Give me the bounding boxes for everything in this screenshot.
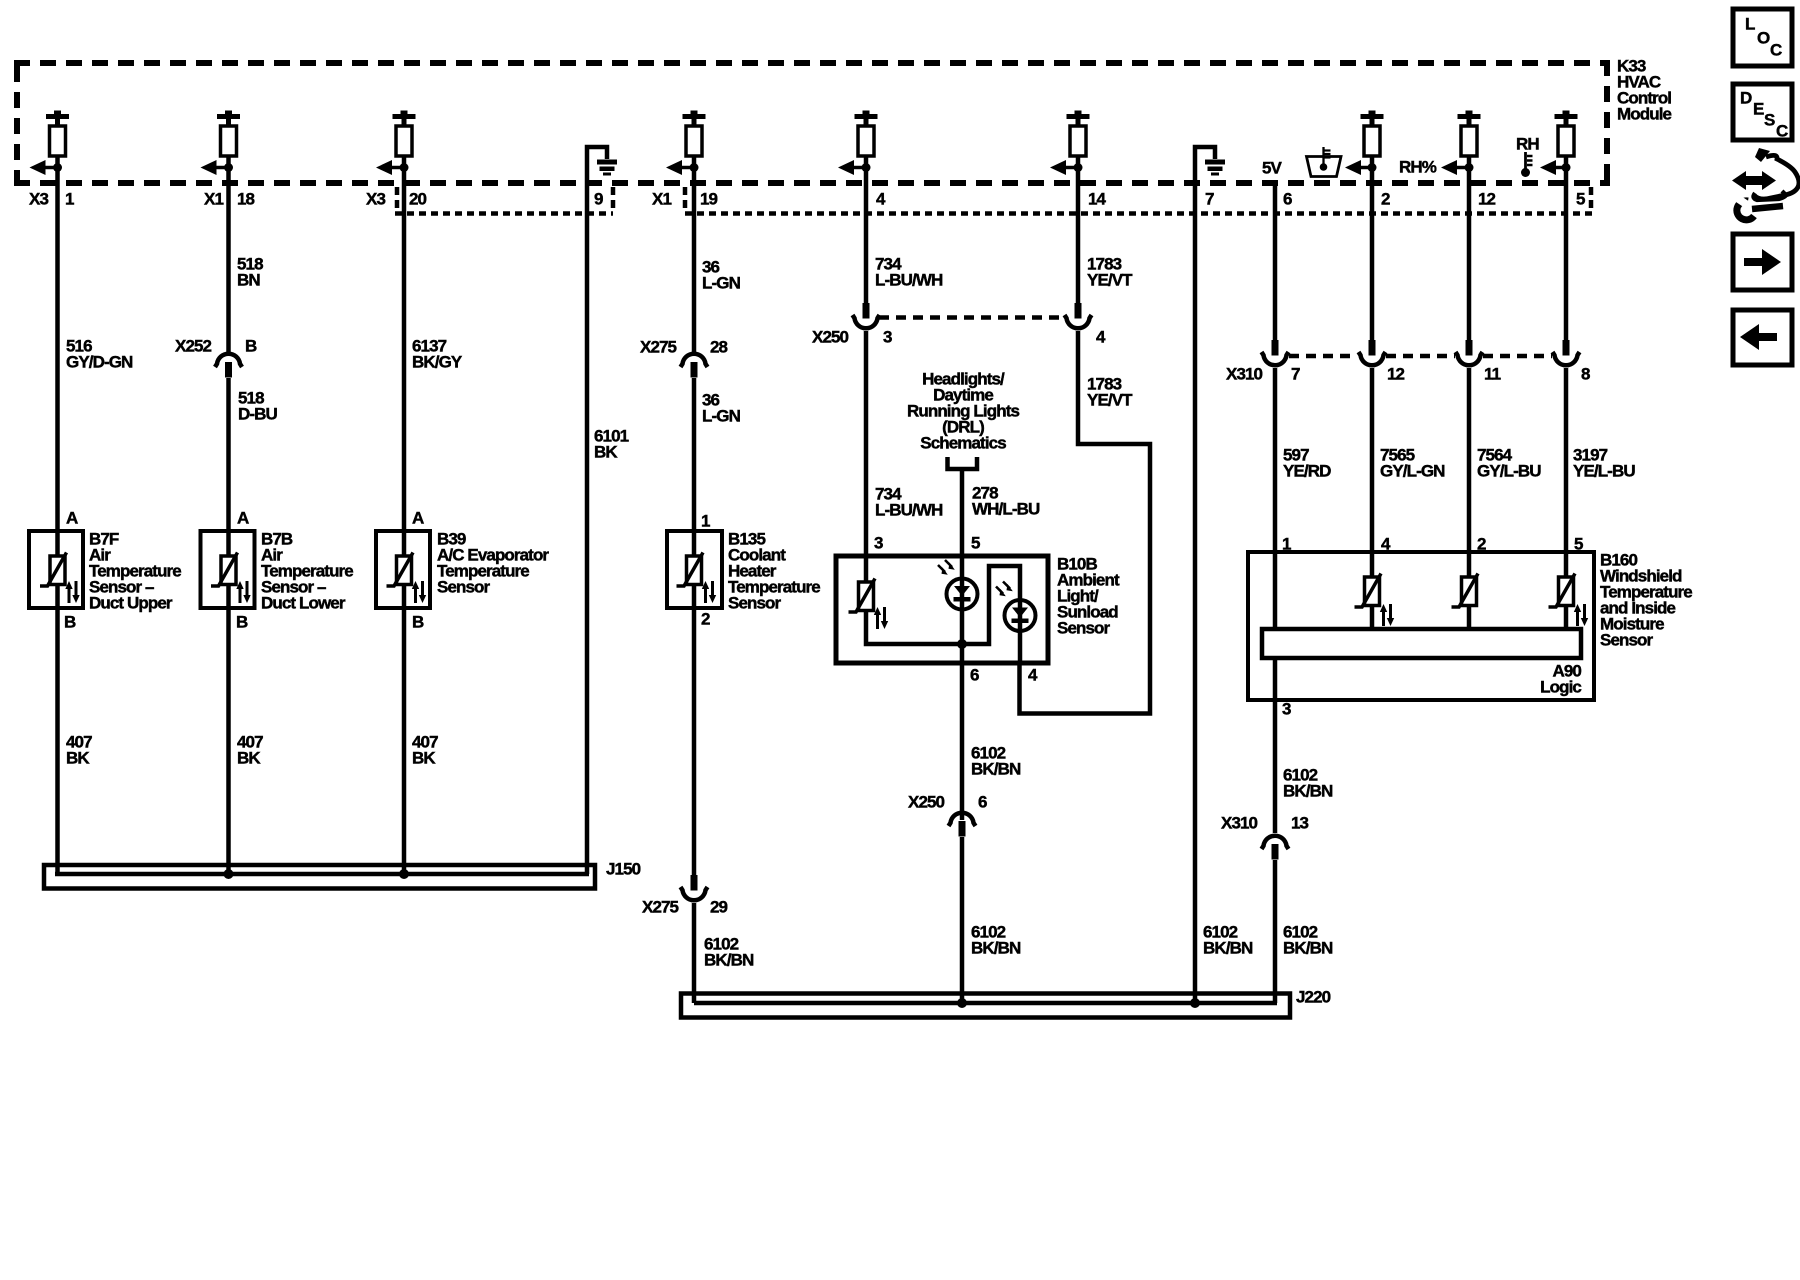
svg-text:1: 1 bbox=[65, 190, 74, 209]
pin label 3 (B10B) bbox=[874, 534, 883, 553]
svg-text:BK/GY: BK/GY bbox=[412, 353, 463, 372]
resistor pin X3-20 of K33 bbox=[393, 111, 416, 157]
connector separator at pin 9 bbox=[611, 187, 616, 212]
wire 6137 BK/GY (pin X3-20 to B39 A) bbox=[402, 156, 407, 531]
thermistor in B135 bbox=[677, 553, 704, 587]
wire 6102 BK/BN (B10B 6 to X250-6) bbox=[960, 663, 965, 820]
svg-text:B: B bbox=[64, 613, 76, 632]
pin label 2 (B135) bbox=[701, 610, 710, 629]
svg-text:19: 19 bbox=[700, 190, 718, 209]
svg-text:L-GN: L-GN bbox=[702, 274, 741, 293]
svg-text:6: 6 bbox=[1283, 190, 1292, 209]
label B7F Air Temperature Sensor - Duct Upper bbox=[89, 530, 181, 613]
svg-text:X252: X252 bbox=[175, 337, 212, 356]
thermistor in B160 (pin 5) bbox=[1549, 574, 1576, 608]
label 6102 BK/BN (above X250-6) bbox=[971, 744, 1021, 779]
svg-text:L-GN: L-GN bbox=[702, 407, 741, 426]
inline connector X310 pin 8 bbox=[1553, 340, 1580, 365]
svg-text:18: 18 bbox=[237, 190, 255, 209]
thermometer icon bbox=[1521, 152, 1533, 177]
label Headlights/Daytime Running Lights (DRL) Schematics bbox=[907, 370, 1019, 453]
icon back arrow box bbox=[1733, 310, 1792, 365]
wire through B39 bbox=[402, 531, 407, 608]
junction dot J150/407-3 bbox=[399, 869, 409, 879]
wire 407 BK (B7B B to J150) bbox=[226, 608, 231, 874]
wire 518 BN (pin X1-18 to X252) bbox=[226, 156, 231, 352]
arrows in B135 bbox=[702, 581, 716, 603]
label B7B Air Temperature Sensor - Duct Lower bbox=[261, 530, 353, 613]
photodiode D1 in B10B (ambient light) bbox=[938, 560, 978, 610]
svg-text:13: 13 bbox=[1291, 814, 1309, 833]
label B160 Windshield Temperature and Inside Moisture Sensor bbox=[1600, 551, 1692, 650]
svg-text:A: A bbox=[237, 509, 249, 528]
thermistor in B160 (pin 2) bbox=[1452, 574, 1479, 608]
resistor pin 14 of K33 bbox=[1067, 111, 1090, 157]
label 6102 BK/BN (above X310-13) bbox=[1283, 766, 1333, 801]
svg-text:Sensor: Sensor bbox=[1600, 631, 1654, 650]
svg-text:L: L bbox=[1745, 15, 1755, 34]
pin label A (B39) bbox=[412, 509, 424, 528]
pin label 4 (B10B) bbox=[1028, 666, 1038, 685]
arrows in B160 (pin 5) bbox=[1574, 604, 1588, 626]
wire 36 L-GN (X275-28 to B135 1) bbox=[692, 378, 697, 531]
pin label 5 (B10B) bbox=[971, 534, 980, 553]
label 1783 YE/VT (lower) bbox=[1087, 375, 1133, 410]
label RH% bbox=[1399, 158, 1437, 177]
wire 3197 YE/L-BU (pin 5 to X310-8) bbox=[1564, 156, 1569, 340]
svg-text:GY/D-GN: GY/D-GN bbox=[66, 353, 133, 372]
svg-text:X310: X310 bbox=[1226, 365, 1263, 384]
pin label 5 (B160) bbox=[1574, 535, 1583, 554]
svg-text:A: A bbox=[66, 509, 78, 528]
label X250 pin 4 bbox=[1096, 328, 1106, 347]
windshield defrost icon bbox=[1307, 147, 1342, 177]
svg-text:BK/BN: BK/BN bbox=[1283, 782, 1333, 801]
off-page connector bracket (DRL) bbox=[948, 457, 978, 469]
resistor pin 12 of K33 bbox=[1458, 111, 1481, 157]
wire 6102 BK/BN (X310-13 to J220) bbox=[1273, 860, 1278, 1003]
label 518 BN bbox=[237, 255, 263, 290]
thermistor in B7F bbox=[40, 553, 67, 587]
svg-text:9: 9 bbox=[594, 190, 603, 209]
svg-text:X1: X1 bbox=[204, 190, 223, 209]
connector link X310 dashed (12 to 11) bbox=[1386, 354, 1455, 359]
label 5V supply bbox=[1262, 159, 1283, 178]
wire 518 D-BU (X252 to B7B A) bbox=[226, 378, 231, 531]
label X250 6 bbox=[908, 793, 987, 812]
wire B10B pin5/diode vertical bbox=[960, 556, 965, 644]
svg-text:B: B bbox=[236, 613, 248, 632]
arrow at pin 2 bbox=[1345, 160, 1377, 175]
label K33 HVAC Control Module bbox=[1617, 57, 1672, 124]
svg-text:J220: J220 bbox=[1296, 988, 1331, 1007]
label RH bbox=[1516, 135, 1539, 154]
label 6102 BK/BN (col 7) bbox=[1203, 923, 1253, 958]
svg-text:2: 2 bbox=[1381, 190, 1390, 209]
pin label B (B39) bbox=[412, 613, 424, 632]
svg-text:YE/RD: YE/RD bbox=[1283, 462, 1331, 481]
wire 597 YE/RD (X310-7 to B160 1) bbox=[1273, 368, 1278, 630]
label 407 BK (col 3) bbox=[412, 733, 438, 768]
wire 6102 BK/BN (X250-6 to J220) bbox=[960, 837, 965, 1003]
svg-text:Logic: Logic bbox=[1540, 678, 1581, 697]
wire B160 pin1 internal bbox=[1273, 552, 1278, 630]
wire 6102 BK/BN (B135 2 to X275-29) bbox=[692, 608, 697, 878]
sensor B7B box bbox=[201, 531, 255, 608]
pin label 5 bbox=[1576, 190, 1585, 209]
label X310 7 bbox=[1226, 365, 1300, 384]
wire 7564 GY/L-BU (X310-11 to B160 2) bbox=[1467, 368, 1472, 577]
svg-text:4: 4 bbox=[876, 190, 886, 209]
svg-text:X250: X250 bbox=[908, 793, 945, 812]
svg-text:BN: BN bbox=[237, 271, 260, 290]
svg-text:Sensor: Sensor bbox=[728, 594, 782, 613]
wire through B135 bbox=[692, 531, 697, 608]
svg-text:BK/BN: BK/BN bbox=[704, 951, 754, 970]
pin label A (B7F) bbox=[66, 509, 78, 528]
svg-text:S: S bbox=[1764, 111, 1775, 130]
connector boundary dotted line (X1 right segment) bbox=[685, 211, 1592, 216]
arrow at pin X1-18 bbox=[201, 160, 234, 175]
junction dot J220/X250-6 bbox=[957, 998, 967, 1008]
label 518 D-BU bbox=[238, 389, 278, 424]
logic module A90 bar bbox=[1262, 629, 1581, 658]
junction dot J150/407-2 bbox=[224, 869, 234, 879]
label 407 BK (col 2) bbox=[237, 733, 263, 768]
svg-text:L-BU/WH: L-BU/WH bbox=[875, 271, 943, 290]
svg-text:C: C bbox=[1776, 122, 1788, 141]
svg-text:28: 28 bbox=[710, 338, 728, 357]
arrow at pin 12 bbox=[1441, 160, 1474, 175]
arrow at pin X3-1 bbox=[30, 160, 63, 175]
svg-text:X310: X310 bbox=[1221, 814, 1258, 833]
wire 6101 BK (pin 9 to J150) bbox=[585, 160, 590, 874]
svg-text:BK: BK bbox=[412, 749, 436, 768]
svg-text:8: 8 bbox=[1581, 365, 1590, 384]
connector link X310 dashed (7 to 12) bbox=[1289, 354, 1357, 359]
connector separator at X1-19 bbox=[683, 187, 688, 212]
inline connector X275 pin 28 bbox=[681, 354, 708, 378]
svg-text:3: 3 bbox=[874, 534, 883, 553]
pin label 4 (B160) bbox=[1381, 535, 1391, 554]
arrow at pin X3-20 bbox=[376, 160, 409, 175]
wire 597 YE/RD (pin 6 to X310-7) bbox=[1273, 183, 1278, 340]
inline connector X310 pin 7 bbox=[1262, 340, 1289, 365]
svg-text:6: 6 bbox=[978, 793, 987, 812]
label 7564 GY/L-BU bbox=[1477, 446, 1541, 481]
svg-text:X275: X275 bbox=[640, 338, 677, 357]
svg-text:BK: BK bbox=[594, 443, 618, 462]
svg-text:7: 7 bbox=[1205, 190, 1214, 209]
wire B160 pin4 internal bbox=[1370, 552, 1375, 630]
wire 516 GY/D-GN (pin X3-1 to B7F A) bbox=[55, 156, 60, 531]
svg-text:6: 6 bbox=[970, 666, 979, 685]
svg-text:X3: X3 bbox=[366, 190, 385, 209]
svg-text:RH: RH bbox=[1516, 135, 1539, 154]
svg-text:Duct Upper: Duct Upper bbox=[89, 594, 173, 613]
icon DESC box bbox=[1733, 84, 1792, 141]
inline connector X275 pin 29 bbox=[681, 875, 708, 900]
label 597 YE/RD bbox=[1283, 446, 1331, 481]
wire B10B pin 3 internal bbox=[864, 556, 869, 582]
svg-text:Sensor: Sensor bbox=[437, 578, 491, 597]
svg-text:D: D bbox=[1740, 89, 1752, 108]
svg-text:X3: X3 bbox=[29, 190, 48, 209]
arrows in B7B bbox=[236, 581, 250, 603]
svg-text:X250: X250 bbox=[812, 328, 849, 347]
svg-text:A: A bbox=[412, 509, 424, 528]
wire B10B pin 6 internal bbox=[960, 644, 965, 663]
pin label 1 (B160) bbox=[1282, 535, 1291, 554]
ground symbol at pin 9 (module internal) bbox=[587, 147, 617, 176]
label 7565 GY/L-GN bbox=[1380, 446, 1445, 481]
label X250 3 bbox=[812, 328, 892, 347]
label X310 8 bbox=[1581, 365, 1590, 384]
label B135 Coolant Heater Temperature Sensor bbox=[728, 530, 820, 613]
wire B10B internal bottom link bbox=[866, 566, 1020, 644]
svg-text:BK: BK bbox=[237, 749, 261, 768]
svg-text:Sensor: Sensor bbox=[1057, 619, 1111, 638]
label X310 12 bbox=[1387, 365, 1405, 384]
svg-text:14: 14 bbox=[1088, 190, 1107, 209]
ground junction block J220 bbox=[681, 994, 1290, 1018]
thermistor in B39 bbox=[387, 553, 414, 587]
svg-text:C: C bbox=[1770, 41, 1782, 60]
icon forward arrow box bbox=[1733, 234, 1792, 290]
arrows in B7F bbox=[65, 581, 79, 603]
pin label 6 bbox=[1283, 190, 1292, 209]
connector link X310 dashed (11 to 8) bbox=[1483, 354, 1552, 359]
inline connector X310 pin 12 bbox=[1359, 340, 1386, 365]
resistor pin 4 of K33 bbox=[855, 111, 878, 157]
arrow at pin 4 bbox=[838, 160, 871, 175]
svg-text:B: B bbox=[245, 337, 257, 356]
label X310 11 bbox=[1484, 365, 1501, 384]
label 6102 BK/BN (col 9) bbox=[1283, 923, 1333, 958]
svg-text:3: 3 bbox=[883, 328, 892, 347]
svg-text:GY/L-BU: GY/L-BU bbox=[1477, 462, 1541, 481]
wire B10B pin 4 internal bbox=[1018, 631, 1023, 664]
wire B160 pin5 internal bbox=[1564, 552, 1569, 630]
wire 36 L-GN (pin X1-19 to X275-28) bbox=[692, 156, 697, 352]
label X252 B bbox=[175, 337, 257, 356]
svg-text:4: 4 bbox=[1096, 328, 1106, 347]
pin label X3 20 bbox=[366, 190, 427, 209]
wire 6102 BK/BN (pin 7 to J220) bbox=[1193, 160, 1198, 1003]
wire through B7F bbox=[55, 531, 60, 608]
arrows in B39 bbox=[412, 581, 426, 603]
svg-text:GY/L-GN: GY/L-GN bbox=[1380, 462, 1445, 481]
pin label X3 1 bbox=[29, 190, 74, 209]
thermistor in B7B bbox=[211, 553, 238, 587]
svg-text:4: 4 bbox=[1028, 666, 1038, 685]
svg-text:YE/VT: YE/VT bbox=[1087, 271, 1133, 290]
sensor B135 box bbox=[667, 531, 722, 608]
svg-text:E: E bbox=[1753, 100, 1764, 119]
svg-text:YE/VT: YE/VT bbox=[1087, 391, 1133, 410]
svg-text:BK: BK bbox=[66, 749, 90, 768]
svg-text:2: 2 bbox=[701, 610, 710, 629]
svg-text:BK/BN: BK/BN bbox=[1283, 939, 1333, 958]
junction dot J220/pin7 bbox=[1190, 998, 1200, 1008]
pin label A (B7B) bbox=[237, 509, 249, 528]
arrows in B10B bbox=[874, 607, 888, 629]
wire 7565 GY/L-GN (X310-12 to B160 4) bbox=[1370, 368, 1375, 577]
svg-text:YE/L-BU: YE/L-BU bbox=[1573, 462, 1635, 481]
svg-text:RH%: RH% bbox=[1399, 158, 1437, 177]
wire 407 BK (B39 B to J150) bbox=[402, 608, 407, 874]
label X310 13 bbox=[1221, 814, 1309, 833]
wire B160 pin2 internal bbox=[1467, 552, 1472, 630]
pin label 14 bbox=[1088, 190, 1107, 209]
sensor B7F box bbox=[29, 531, 83, 608]
svg-text:29: 29 bbox=[710, 898, 728, 917]
inline connector X250 pin 3 bbox=[853, 303, 880, 328]
label 278 WH/L-BU bbox=[972, 484, 1040, 519]
pin label 7 bbox=[1205, 190, 1214, 209]
label 6102 BK/BN (col 6) bbox=[971, 923, 1021, 958]
pin label X1 18 bbox=[204, 190, 255, 209]
resistor pin X1-19 of K33 bbox=[683, 111, 706, 157]
inline connector X252 pin B bbox=[215, 354, 242, 378]
wire 7565 GY/L-GN (pin 2 to X310-12) bbox=[1370, 156, 1375, 340]
svg-text:20: 20 bbox=[409, 190, 427, 209]
svg-text:J150: J150 bbox=[606, 860, 641, 879]
wire through B7B bbox=[226, 531, 231, 608]
label 516 GY/D-GN bbox=[66, 337, 133, 372]
label 6137 BK/GY bbox=[412, 337, 463, 372]
svg-text:Schematics: Schematics bbox=[920, 434, 1006, 453]
svg-text:5: 5 bbox=[1576, 190, 1585, 209]
wire 7564 GY/L-BU (pin 12 to X310-11) bbox=[1467, 156, 1472, 340]
label B39 A/C Evaporator Temperature Sensor bbox=[437, 530, 549, 597]
wire 6102 BK/BN (B160 3 to X310-13) bbox=[1273, 658, 1278, 833]
svg-text:5: 5 bbox=[971, 534, 980, 553]
label B10B Ambient Light/Sunload Sensor bbox=[1057, 555, 1120, 638]
photodiode D2 in B10B (sunload) bbox=[996, 582, 1036, 632]
wire 734 L-BU/WH (X250-3 to B10B 3) bbox=[864, 331, 869, 556]
svg-text:7: 7 bbox=[1291, 365, 1300, 384]
pin label B (B7B) bbox=[236, 613, 248, 632]
icon LOC box bbox=[1733, 9, 1792, 66]
resistor pin X1-18 of K33 bbox=[217, 111, 240, 157]
sensor B39 box bbox=[376, 531, 430, 608]
sensor B160 box bbox=[1248, 552, 1594, 700]
label 36 L-GN (lower) bbox=[702, 391, 741, 426]
ground junction block J150 bbox=[44, 865, 595, 889]
sensor B10B box bbox=[836, 556, 1048, 663]
connector link X250 dashed bbox=[879, 315, 1064, 320]
svg-text:3: 3 bbox=[1282, 700, 1291, 719]
wire 278 WH/L-BU (DRL to B10B 5) bbox=[960, 469, 965, 556]
ground symbol at pin 7 (module internal) bbox=[1195, 147, 1225, 176]
svg-text:L-BU/WH: L-BU/WH bbox=[875, 501, 943, 520]
svg-text:B: B bbox=[412, 613, 424, 632]
svg-text:Module: Module bbox=[1617, 105, 1672, 124]
resistor pin X3-1 of K33 bbox=[46, 111, 69, 157]
label 734 L-BU/WH (upper) bbox=[875, 255, 943, 290]
label 36 L-GN (upper) bbox=[702, 258, 741, 293]
wire 734 L-BU/WH (pin 4 to X250-3) bbox=[864, 156, 869, 316]
svg-text:12: 12 bbox=[1478, 190, 1496, 209]
arrow at pin 14 bbox=[1050, 160, 1083, 175]
label 6102 BK/BN (col 5) bbox=[704, 935, 754, 970]
inline connector X310 pin 13 bbox=[1262, 836, 1289, 860]
label 407 BK (col 1) bbox=[66, 733, 92, 768]
svg-text:1: 1 bbox=[701, 512, 710, 531]
inline connector X250 pin 6 bbox=[949, 813, 976, 837]
label X275 29 bbox=[642, 898, 728, 917]
wire 1783 YE/VT (pin 14 to X250-4) bbox=[1076, 156, 1081, 316]
connector boundary dotted line (X3/X1 segment) bbox=[395, 211, 613, 216]
thermistor in B10B bbox=[849, 579, 876, 613]
resistor pin 2 of K33 bbox=[1361, 111, 1384, 157]
pin label 6 (B10B) bbox=[970, 666, 979, 685]
label 1783 YE/VT (upper) bbox=[1087, 255, 1133, 290]
wire 1783 YE/VT (X250-4 to B10B 4 routing) bbox=[1020, 331, 1151, 714]
svg-text:Duct Lower: Duct Lower bbox=[261, 594, 346, 613]
svg-text:BK/BN: BK/BN bbox=[971, 760, 1021, 779]
svg-text:O: O bbox=[1757, 29, 1770, 48]
connector separator at pin 5 bbox=[1589, 187, 1594, 212]
label 3197 YE/L-BU bbox=[1573, 446, 1635, 481]
arrows in B160 (pin 4) bbox=[1380, 604, 1394, 626]
pin label 3 (B160) bbox=[1282, 700, 1291, 719]
label 734 L-BU/WH (lower) bbox=[875, 485, 943, 520]
pin label 2 (B160) bbox=[1477, 535, 1486, 554]
svg-text:X1: X1 bbox=[652, 190, 671, 209]
svg-text:D-BU: D-BU bbox=[238, 405, 278, 424]
svg-text:BK/BN: BK/BN bbox=[1203, 939, 1253, 958]
icon harness routing (arrows and wrench) bbox=[1732, 148, 1799, 220]
pin label 1 (B135) bbox=[701, 512, 710, 531]
inline connector X250 pin 4 bbox=[1065, 303, 1092, 328]
wire 407 BK (B7F B to J150) bbox=[55, 608, 60, 874]
label 6101 BK bbox=[594, 427, 629, 462]
wire 3197 YE/L-BU (X310-8 to B160 5) bbox=[1564, 368, 1569, 577]
arrow at pin X1-19 bbox=[666, 160, 699, 175]
label X275 28 bbox=[640, 338, 728, 357]
wire 6102 BK/BN (X275-29 to J220) bbox=[692, 903, 697, 1003]
svg-text:5V: 5V bbox=[1262, 159, 1283, 178]
junction dot B10B bbox=[957, 639, 967, 649]
pin label X1 19 bbox=[652, 190, 718, 209]
svg-text:WH/L-BU: WH/L-BU bbox=[972, 500, 1040, 519]
label J150 bbox=[606, 860, 641, 879]
svg-text:11: 11 bbox=[1484, 365, 1501, 384]
label A90 Logic bbox=[1540, 662, 1581, 697]
pin label 9 bbox=[594, 190, 603, 209]
inline connector X310 pin 11 bbox=[1456, 340, 1483, 365]
pin label 12 bbox=[1478, 190, 1496, 209]
module K33 HVAC Control Module dashed outline bbox=[14, 60, 1610, 186]
svg-text:BK/BN: BK/BN bbox=[971, 939, 1021, 958]
svg-text:X275: X275 bbox=[642, 898, 679, 917]
pin label B (B7F) bbox=[64, 613, 76, 632]
label J220 bbox=[1296, 988, 1331, 1007]
thermistor in B160 (pin 4) bbox=[1355, 574, 1382, 608]
connector separator at X3-20 bbox=[395, 187, 400, 212]
pin label 4 bbox=[876, 190, 886, 209]
pin label 2 bbox=[1381, 190, 1390, 209]
svg-text:12: 12 bbox=[1387, 365, 1405, 384]
arrow at pin 5 bbox=[1540, 160, 1571, 175]
resistor pin 5 of K33 bbox=[1555, 111, 1578, 157]
